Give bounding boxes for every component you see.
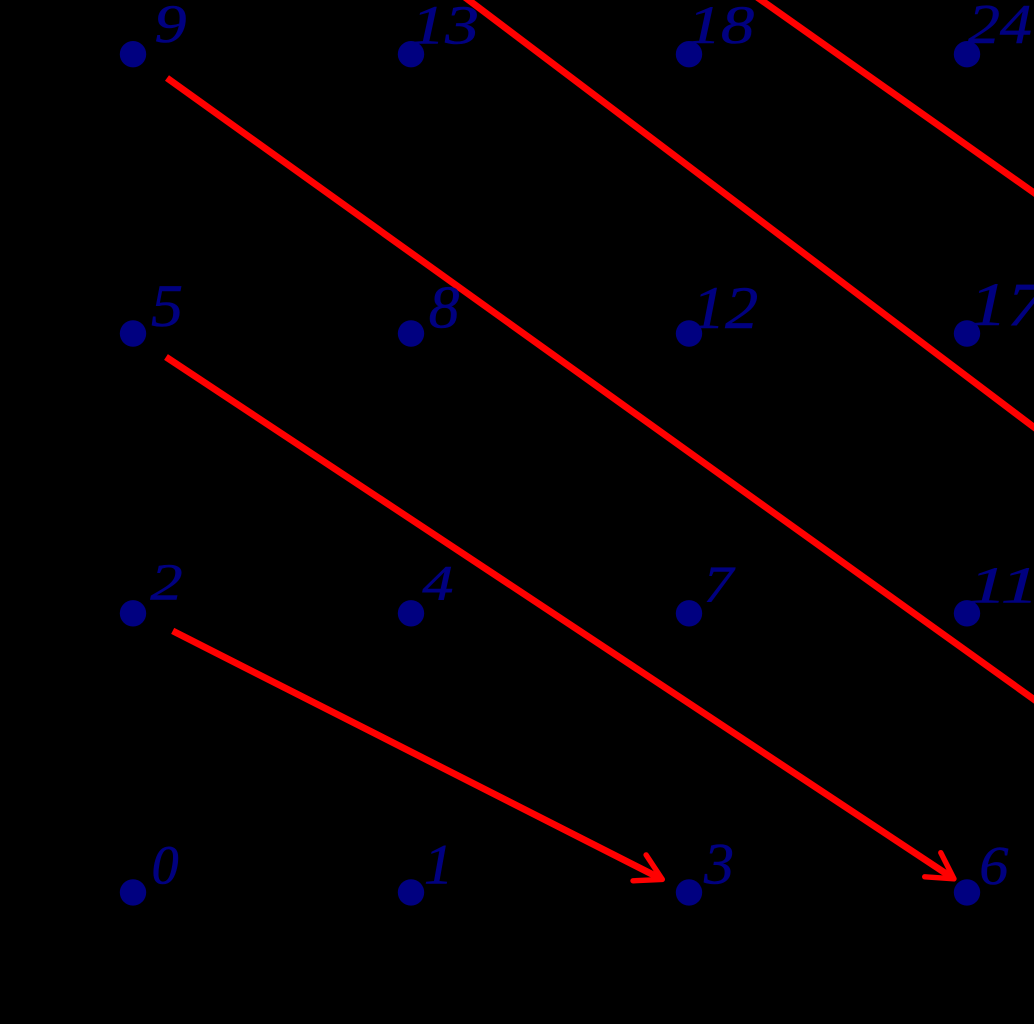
- wire: red arrow shaft from node 2 to node 3: [173, 631, 660, 878]
- svg-text:5: 5: [151, 273, 183, 340]
- node 9: [120, 41, 146, 67]
- node 2: [120, 600, 146, 626]
- node 12: [676, 320, 702, 346]
- svg-text:4: 4: [422, 555, 453, 611]
- svg-text:3: 3: [703, 832, 734, 897]
- node 0: [120, 879, 146, 905]
- wire: red diagonal line from off-canvas node 20 toward off-canvas node 21: [754, 0, 1034, 201]
- wire: red arrow shaft from node 5 to node 6: [166, 357, 951, 877]
- svg-text:8: 8: [429, 274, 460, 341]
- svg-text:0: 0: [152, 835, 179, 896]
- node 18: [676, 41, 702, 67]
- node 6: [954, 879, 980, 905]
- svg-text:2: 2: [150, 554, 182, 611]
- svg-text:24: 24: [968, 0, 1032, 56]
- node 3: [676, 879, 702, 905]
- svg-text:17: 17: [970, 272, 1034, 339]
- svg-text:13: 13: [411, 0, 479, 56]
- svg-text:1: 1: [424, 833, 453, 896]
- svg-text:12: 12: [692, 275, 758, 342]
- svg-text:9: 9: [155, 0, 187, 54]
- node 17: [954, 320, 980, 346]
- node 13: [398, 41, 424, 67]
- svg-text:11: 11: [969, 557, 1034, 615]
- node 8: [398, 320, 424, 346]
- node 5: [120, 320, 146, 346]
- svg-text:6: 6: [979, 835, 1008, 896]
- node 24: [954, 41, 980, 67]
- arrowhead at node 3: [633, 855, 662, 881]
- arrowhead at node 6: [925, 853, 954, 879]
- node 4: [398, 600, 424, 626]
- node 11: [954, 600, 980, 626]
- wire: red diagonal line from off-canvas node 14 toward off-canvas node 15: [462, 0, 1034, 436]
- wire: red diagonal line from node 9 toward off-canvas node 10: [167, 78, 1034, 707]
- svg-text:7: 7: [704, 556, 736, 613]
- node 1: [398, 879, 424, 905]
- node 7: [676, 600, 702, 626]
- svg-text:18: 18: [688, 0, 755, 55]
